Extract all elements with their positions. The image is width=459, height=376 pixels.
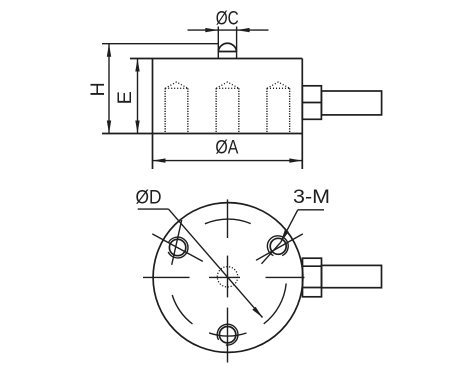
svg-text:E: E: [114, 91, 136, 104]
dimension H bottom arrow: [107, 121, 111, 134]
load button left side / C extension line: [217, 27, 219, 59]
cable (plan view): [322, 265, 382, 287]
connector block (side view): [302, 86, 321, 120]
bolt circle arc top: [205, 219, 251, 224]
hidden tapped hole 1 (dotted): [165, 82, 188, 133]
horizontal centerline segment 1: [143, 276, 190, 278]
bolt hole bottom thread arc: [217, 324, 238, 345]
center hole (dotted circle): [217, 267, 237, 287]
bolt hole bottom inner circle: [219, 327, 235, 343]
3-M leader diagonal: [281, 210, 298, 242]
dimension C left arrow: [205, 28, 218, 32]
dimension H top arrow: [107, 44, 111, 57]
vertical centerline segment 2: [227, 256, 229, 298]
load button dome arc: [218, 43, 236, 51]
horizontal centerline segment 3: [266, 276, 305, 278]
body top edge (extended left for E dimension): [130, 58, 302, 60]
3-M leader arrowhead: [281, 230, 289, 243]
bolt hole top-right inner circle: [270, 238, 286, 254]
cable (side view): [321, 91, 381, 115]
bolt circle dash through bottom hole: [209, 333, 246, 336]
dimension E top arrow: [135, 59, 139, 72]
horizontal centerline segment 2: [209, 276, 240, 278]
svg-text:ØC: ØC: [216, 8, 239, 30]
svg-text:ØA: ØA: [215, 136, 239, 158]
body left edge (extended down for A dimension): [152, 59, 154, 170]
connector block mid line: [302, 102, 321, 104]
bolt hole top-left inner circle: [169, 239, 185, 255]
dimension A right arrow: [289, 158, 302, 162]
bolt circle arc lower-left: [172, 295, 192, 324]
load button right side / C extension line: [236, 27, 238, 59]
vertical centerline segment 3: [227, 308, 229, 363]
hidden tapped hole 2 (dotted): [216, 82, 239, 133]
vertical centerline segment 1: [227, 199, 229, 238]
main circular body outline: [153, 203, 303, 353]
load button chord line: [218, 51, 236, 53]
ØD leader underline: [138, 208, 169, 210]
ØD leader diagonal through center: [169, 209, 263, 317]
bolt hole top-left thread arc: [168, 237, 188, 258]
hidden tapped hole 3 (dotted): [267, 82, 290, 133]
dimension E bottom arrow: [135, 121, 139, 134]
bolt circle arc lower-right: [264, 283, 286, 323]
bolt hole top-right thread arc: [267, 236, 288, 256]
bolt hole top-left cross centerline: [172, 220, 182, 265]
bolt hole top-right tangential centerline: [262, 242, 281, 264]
bolt hole top-left radial centerline: [152, 234, 203, 262]
dimension C right arrow: [237, 28, 250, 32]
body bottom edge (extended left for H dimension): [102, 133, 302, 135]
svg-text:ØD: ØD: [136, 186, 162, 208]
dimension E line: [137, 59, 139, 134]
svg-text:H: H: [87, 82, 109, 96]
bolt hole top-right radial centerline: [256, 234, 303, 260]
body right edge (extended down for A dimension): [301, 59, 303, 170]
dimension A line: [153, 160, 303, 162]
connector block flat line upper: [303, 265, 322, 267]
dimension A left arrow: [153, 158, 166, 162]
connector block (plan view): [303, 258, 322, 297]
connector block flat line lower: [303, 287, 322, 289]
3-M leader underline: [298, 209, 324, 211]
svg-text:3-M: 3-M: [293, 186, 330, 208]
H top extension line: [102, 43, 218, 45]
dimension C line: [188, 29, 269, 31]
dimension H line: [108, 44, 110, 134]
ØD leader arrowhead: [252, 307, 262, 318]
